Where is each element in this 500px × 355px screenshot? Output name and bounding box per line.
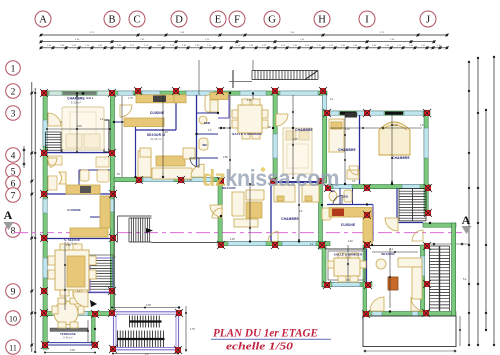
svg-text:3.20: 3.20: [77, 125, 82, 128]
partition ca kitchenette x229: [228, 95, 230, 118]
svg-text:CHAMBRE: CHAMBRE: [67, 97, 85, 101]
small furniture left-wing rooms: [48, 156, 62, 165]
grid bubble E: [210, 11, 226, 27]
svg-text:SEJOUR: SEJOUR: [381, 252, 395, 256]
svg-text:H: H: [318, 15, 326, 26]
partition ma bath strip x196.5: [196, 95, 198, 177]
door arc middle-apt entry: [120, 105, 132, 117]
svg-text:A: A: [39, 15, 47, 26]
wall top right wing (y111): [327, 111, 430, 115]
window top C-D: [142, 91, 160, 95]
wall center-apt bottom (y241.5): [218, 242, 330, 246]
window rw bottom 2: [402, 185, 420, 189]
svg-text:CUISINE: CUISINE: [150, 111, 164, 115]
watermark dzknissa.com: [202, 165, 339, 191]
lintel bar rw 1: [340, 112, 356, 115]
window top-left 2: [97, 91, 110, 95]
door arc left-room: [48, 113, 61, 126]
wardrobe bar left-room: [104, 120, 109, 152]
wall salle-b left (x322): [322, 245, 326, 287]
svg-text:A: A: [4, 208, 13, 222]
wall terrace left (x43): [43, 316, 47, 349]
svg-text:J: J: [426, 15, 430, 26]
node dot top wall: [82, 92, 85, 95]
sofa set sejour-b: [398, 258, 422, 267]
svg-text:CHAMBRE: CHAMBRE: [392, 156, 410, 160]
dimension chain row 3 right: [229, 46, 448, 49]
partition lw y217: [90, 216, 110, 218]
grid bubble 5: [6, 164, 21, 179]
lintel bar rw 2: [385, 112, 403, 115]
window salle-b bottom: [332, 283, 360, 287]
door arc center-apt entry: [210, 205, 222, 217]
balcony edge gray x233: [232, 70, 234, 88]
svg-text:11: 11: [9, 343, 17, 352]
door arc sdb right-wing: [333, 196, 342, 205]
stray dim tick (far left): [23, 146, 25, 168]
terrace-br outline: [363, 316, 456, 347]
dim line right of tower: [430, 243, 468, 245]
door arcs sejour-b entry: [370, 297, 384, 311]
wall sejour-b left (x363): [363, 245, 367, 316]
window sejour-b right: [421, 256, 425, 276]
grid bubble A: [35, 11, 51, 27]
window left 4: [43, 322, 47, 338]
staircase central stairwell: [399, 189, 426, 222]
section line A-A: [14, 232, 462, 234]
staircase right tower: [430, 246, 450, 311]
courtyard rail x117.5: [117, 216, 119, 243]
grid bubble 9: [6, 284, 21, 299]
columns (red, all): [40, 87, 432, 354]
door arc chambre-G: [276, 114, 288, 126]
wc bottom-apt: [322, 208, 331, 220]
dimension chain (left): [30, 82, 36, 353]
partition rw bath y204.5: [327, 204, 373, 206]
partition ca kitchenette y118: [218, 117, 229, 119]
staircase left-room (top-left wing): [46, 132, 62, 152]
grid bubble D: [171, 11, 187, 27]
closet rw 1: [345, 113, 357, 118]
window sejour-b bottom: [372, 312, 382, 316]
partition ma sejour left x135.5: [135, 122, 137, 177]
dresser rw chambre1: [347, 170, 359, 179]
bed left-room: [62, 107, 104, 150]
door arc hall bottom-apt: [385, 218, 398, 231]
courtyard line y216: [118, 215, 152, 217]
svg-text:HALL: HALL: [86, 97, 94, 100]
svg-text:TERRASSE: TERRASSE: [60, 332, 76, 336]
svg-text:1.75: 1.75: [128, 97, 133, 100]
wall left-wing right (x110): [110, 95, 114, 313]
salle-b inner frame: [328, 251, 365, 280]
parapet gray top-left: [63, 92, 96, 95]
terrace parapet gray: [50, 328, 88, 331]
window rw right: [424, 128, 428, 158]
grid bubble 6: [6, 176, 21, 191]
svg-text:PLAN DU 1er ETAGE: PLAN DU 1er ETAGE: [213, 326, 318, 339]
partition lw x79 y170-194: [78, 170, 80, 194]
wall left (x43): [43, 91, 47, 349]
wall cuisine left (x318.5) seg: [319, 245, 323, 249]
window top F-G: [240, 91, 266, 95]
sofa set center-apt: [232, 192, 244, 216]
svg-text:S. SEJOUR: S. SEJOUR: [64, 238, 80, 242]
wall H line lower (x318.5): [319, 183, 323, 245]
svg-text:8.40 m²: 8.40 m²: [63, 337, 72, 340]
partition left-room bottom (y152): [47, 152, 110, 154]
window top-left 1: [49, 91, 62, 95]
courtyard line y242.5: [152, 242, 220, 244]
dining set left-wing bottom: [55, 250, 89, 290]
svg-text:1: 1: [11, 64, 16, 74]
door shape left-wing: [59, 172, 66, 184]
dim line under terrace: [364, 350, 456, 352]
partition left-room inner: [47, 121, 62, 123]
svg-text:G: G: [268, 15, 276, 26]
wall middle-apt bottom (y177.5): [114, 178, 222, 182]
pergola structure (bottom): [114, 312, 179, 350]
svg-text:CUISINE: CUISINE: [341, 223, 355, 227]
grid bubble F: [229, 11, 245, 27]
window left 1: [43, 120, 47, 146]
svg-text:WC: WC: [202, 143, 207, 147]
partition lw y194: [47, 193, 110, 195]
partition ma bath y134: [197, 133, 219, 135]
window left 3: [43, 258, 47, 278]
wall H line upper (x322.5): [323, 91, 327, 183]
svg-text:CHAMBRE: CHAMBRE: [295, 128, 313, 132]
svg-text:D: D: [175, 15, 183, 26]
grid bubble J: [420, 11, 436, 27]
svg-text:4.45: 4.45: [230, 238, 235, 241]
svg-text:2.85: 2.85: [223, 156, 228, 159]
svg-text:4.35: 4.35: [146, 304, 151, 307]
partition rw bath x352.5: [352, 188, 354, 204]
window ca bottom 2: [282, 242, 316, 246]
grid bubble 1: [6, 61, 21, 76]
partition rw split x359.5: [359, 115, 361, 184]
svg-text:E: E: [215, 15, 221, 26]
svg-text:F: F: [234, 15, 240, 26]
window top B-C: [118, 91, 133, 95]
svg-text:3.30: 3.30: [70, 349, 75, 352]
sofa set middle-apt: [138, 151, 151, 177]
partition lw y292: [88, 292, 114, 294]
door arc chambre2: [268, 232, 278, 242]
section marker left triangle: [4, 222, 14, 230]
balcony hatch strip (top center): [252, 71, 318, 80]
svg-text:dzknissa.com: dzknissa.com: [202, 165, 339, 191]
svg-text:A: A: [462, 213, 471, 227]
svg-text:3.40: 3.40: [348, 240, 353, 243]
svg-text:3.45: 3.45: [293, 138, 298, 141]
grid bubble 10: [6, 311, 21, 326]
kitchenette center-apt: [210, 93, 228, 100]
partition ba sejour top y245.5: [366, 245, 420, 247]
door arc left-wing bottom: [73, 292, 88, 307]
window ma bottom 2: [185, 178, 213, 182]
junction node dots: [43, 92, 431, 330]
partition lw y255: [88, 254, 114, 256]
grid bubble 2: [6, 84, 21, 99]
door arc tower: [412, 230, 423, 241]
svg-text:21.40 m²: 21.40 m²: [150, 138, 161, 141]
title underline: [211, 338, 331, 340]
wall tower right (x451.5): [452, 223, 456, 316]
dimension figures (top): [47, 32, 442, 47]
svg-text:SDB: SDB: [342, 195, 348, 199]
beds chambre-G2: [274, 185, 295, 202]
door arc bath middle-apt: [190, 158, 199, 167]
staircase left-wing mid: [90, 258, 113, 292]
bed right-wing chambre2: [379, 122, 410, 155]
partition stairwell left x397: [396, 188, 398, 223]
partition ba salle top y249: [326, 248, 366, 250]
dimension chain row 3 left: [39, 46, 222, 49]
bath fixtures right-wing: [329, 191, 337, 201]
grid bubble G: [264, 11, 280, 27]
section marker right triangle: [462, 226, 472, 234]
wall top (rows A-H, y91): [43, 91, 327, 95]
partition ca sejour/chambre x271: [270, 185, 272, 241]
wall salle-b bottom (y282.5): [322, 283, 372, 287]
grid bubble 11: [6, 340, 21, 355]
bed right-wing chambre1: [329, 119, 344, 152]
window rw top 1: [330, 111, 339, 115]
svg-text:9.20 m²: 9.20 m²: [71, 101, 81, 105]
door arc left-wing room2: [47, 158, 57, 167]
window lw bottom: [52, 312, 88, 316]
svg-text:4.30: 4.30: [247, 99, 252, 102]
kitchen counter bottom-apt: [329, 208, 372, 218]
bath fixtures middle-apt: [205, 95, 218, 112]
svg-text:CHAMBRE: CHAMBRE: [338, 148, 356, 152]
wall rw right (x424): [424, 111, 428, 215]
svg-text:3: 3: [11, 109, 16, 119]
dimension chain row 1 (top): [39, 33, 448, 36]
grid bubble 4: [6, 148, 21, 163]
grid bubble C: [129, 11, 145, 27]
partition ma bath y158: [197, 157, 219, 159]
partition rw bath x340: [339, 188, 341, 204]
partition lw y170: [79, 169, 110, 171]
svg-text:I: I: [365, 15, 369, 26]
window top D-E: [186, 91, 214, 95]
bed chambre-G: [283, 128, 312, 174]
window H line: [323, 95, 327, 110]
svg-text:SALLE A MANGER: SALLE A MANGER: [232, 132, 262, 136]
table salle-b: [334, 258, 360, 276]
window ma bottom 1: [143, 178, 174, 182]
door arc middle-apt salon: [191, 164, 204, 177]
wall center-apt left (x218): [218, 183, 222, 245]
svg-text:1.75: 1.75: [190, 328, 195, 331]
sideboard middle-apt: [124, 118, 164, 127]
window lw-right 1: [110, 199, 114, 212]
svg-text:4.15: 4.15: [163, 131, 168, 134]
terrace bottom wall: [45, 343, 95, 345]
grid bubble 8: [6, 223, 21, 238]
partition rw hall x373: [372, 205, 374, 242]
grid bubble 7: [6, 188, 21, 203]
round table left-wing bottom: [54, 301, 78, 325]
svg-text:7: 7: [11, 191, 16, 201]
window rw top 3: [404, 111, 423, 115]
svg-text:3.10: 3.10: [345, 128, 350, 131]
svg-text:4: 4: [11, 151, 16, 161]
wall rw bottom (y184.5): [327, 185, 430, 189]
svg-text:CUISINE: CUISINE: [67, 208, 81, 212]
svg-text:B: B: [108, 15, 115, 26]
wall tower top (y223): [423, 223, 456, 227]
partition ba salle right x366.5: [366, 249, 368, 282]
grid bubble B: [104, 11, 120, 27]
svg-text:CHAMBRE: CHAMBRE: [281, 217, 299, 221]
svg-text:3.30: 3.30: [66, 244, 71, 247]
window ca bottom 1: [228, 242, 266, 246]
partition ma hall y122: [114, 121, 136, 123]
svg-text:10: 10: [9, 314, 17, 323]
svg-text:SDB: SDB: [204, 121, 211, 125]
svg-text:9: 9: [11, 287, 16, 297]
svg-text:4.20: 4.20: [393, 124, 398, 127]
grid bubble 3: [6, 106, 21, 121]
partition lw stairwell x88: [87, 255, 89, 292]
partition ma cuisine right x176: [175, 95, 177, 130]
interior dimension strings: [44, 60, 461, 355]
balcony line y81: [229, 81, 252, 83]
partition stairwell bottom y222.5: [397, 222, 423, 224]
kitchen left-wing: [66, 185, 100, 194]
window top G-H: [280, 91, 318, 95]
window rw bottom 1: [333, 185, 352, 189]
window left 2: [43, 199, 47, 213]
kitchen counter middle-apt: [136, 95, 174, 103]
partition ca chambre split y181.5: [273, 181, 323, 183]
svg-text:1.30: 1.30: [187, 179, 192, 182]
svg-text:C: C: [133, 15, 140, 26]
wall sejour-b bottom (y311.5): [363, 312, 456, 316]
wall left-wing bottom (y311.5): [43, 312, 114, 316]
door arc right-wing ch1: [349, 166, 358, 175]
grid bubble H: [314, 11, 330, 27]
staircase entry (exterior): [129, 218, 152, 242]
grid bubble I: [359, 11, 375, 27]
fixtures left-wing top: [80, 170, 89, 181]
dimension chains (right): [468, 56, 495, 346]
svg-text:echelle 1/50: echelle 1/50: [226, 340, 294, 352]
wall G line (x273): [273, 91, 277, 183]
partition ma cuisine bottom y130: [136, 129, 176, 131]
svg-text:8: 8: [11, 226, 16, 236]
wall terrace right (x91.5): [92, 316, 96, 346]
wall sejour-b right (x420.5): [421, 245, 425, 316]
partition lw y238: [47, 238, 110, 240]
window rw top 2: [357, 111, 384, 115]
window G line: [273, 134, 277, 158]
partition ma bath y113: [197, 112, 219, 114]
dining table center-apt: [238, 105, 262, 133]
tiny dimension figures (plan): [66, 97, 467, 355]
svg-text:2: 2: [11, 87, 16, 97]
window sejour-b bottom 2: [412, 312, 418, 316]
dimension chain row 2 (top): [39, 40, 435, 43]
svg-text:SALLE A MANGER: SALLE A MANGER: [334, 253, 363, 257]
